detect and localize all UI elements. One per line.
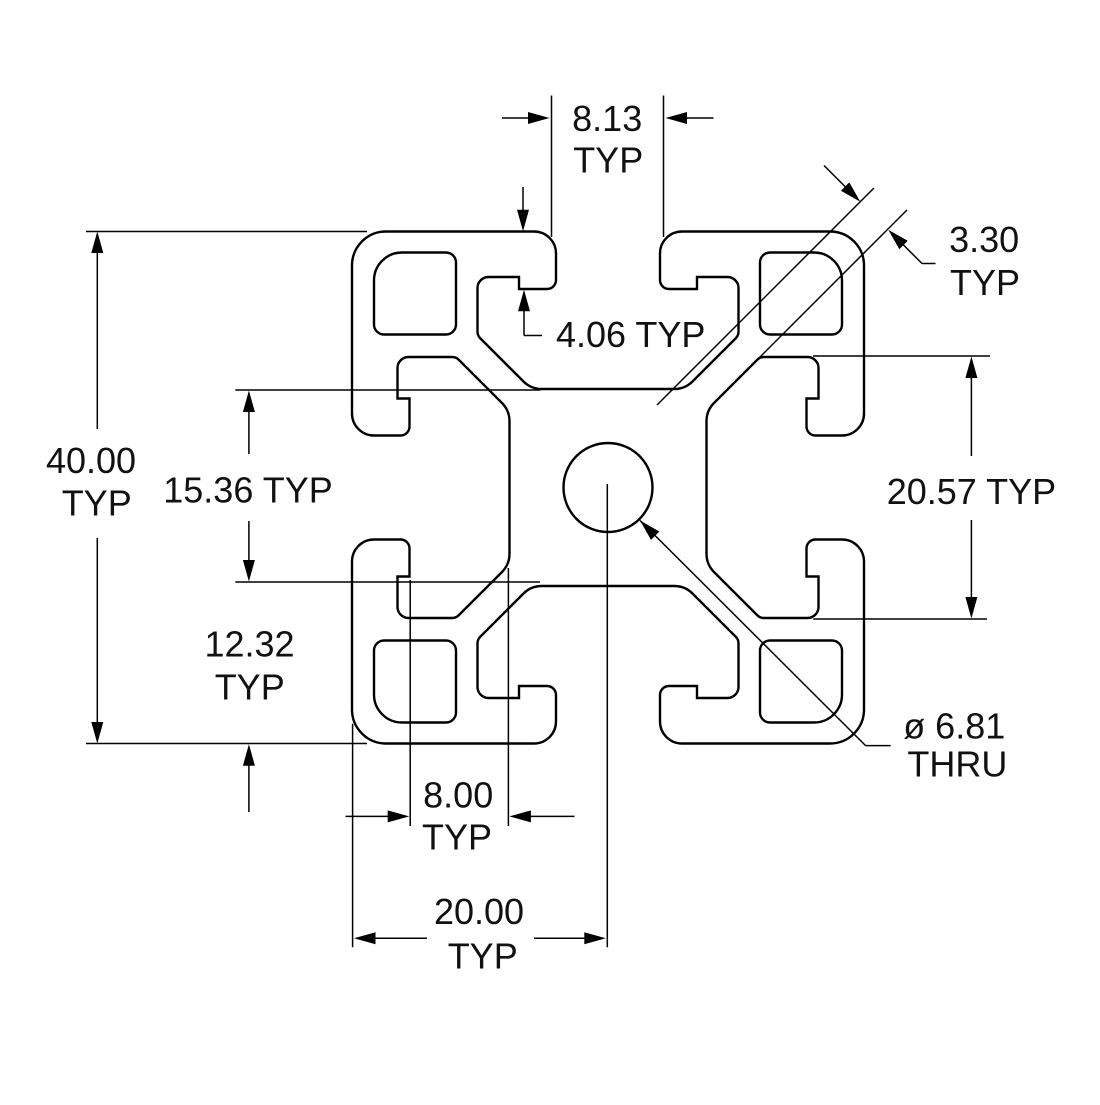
dim 20.00 TYP left arrow — [373, 937, 428, 939]
svg-text:12.32: 12.32 — [204, 624, 294, 665]
dim 20.57 TYP extension line bottom — [813, 618, 987, 620]
svg-text:TYP: TYP — [448, 936, 518, 977]
dim 3.30 TYP diagonal extension line upper — [657, 188, 874, 405]
dim 8.13 TYP left arrow — [502, 117, 531, 119]
svg-text:40.00: 40.00 — [46, 440, 136, 481]
dim 8.13 TYP extension line right — [663, 96, 665, 238]
dim 20.57 TYP lower arrow — [970, 520, 972, 600]
dim 4.06 TYP upper arrow pointing down at top face — [522, 187, 524, 213]
corner hollow bottom-right — [760, 641, 842, 723]
svg-text:4.06 TYP: 4.06 TYP — [556, 314, 705, 355]
svg-text:TYP: TYP — [573, 140, 643, 181]
svg-text:ø 6.81: ø 6.81 — [903, 706, 1005, 747]
svg-text:TYP: TYP — [62, 483, 132, 524]
svg-text:8.00: 8.00 — [423, 775, 493, 816]
dim 20.57 TYP upper arrow — [970, 375, 972, 456]
hole vertical centerline — [606, 484, 608, 947]
dim 40.00 TYP lower arrow — [96, 538, 98, 725]
dim 20.00 TYP extension line left — [352, 724, 354, 948]
center through hole — [564, 443, 653, 532]
dim 20.57 TYP extension line top — [813, 355, 990, 357]
svg-text:15.36 TYP: 15.36 TYP — [163, 470, 332, 511]
dim 12.32 TYP arrow below bottom face — [248, 762, 250, 812]
dim 8.13 TYP extension line left — [551, 96, 553, 238]
dim 40.00 TYP extension line bottom — [86, 743, 367, 745]
svg-text:3.30: 3.30 — [949, 219, 1019, 260]
hole callout leader with arrow — [640, 521, 866, 746]
svg-text:20.57 TYP: 20.57 TYP — [887, 471, 1056, 512]
profile outline of T-slot aluminum extrusion cross-section — [352, 232, 864, 744]
dim 8.00 TYP extension line right — [507, 568, 509, 826]
dim 15.36 TYP upper arrow — [248, 409, 250, 454]
dim 20.00 TYP right arrow — [534, 937, 587, 939]
dim 8.00 TYP extension line left — [409, 580, 411, 826]
dim 8.00 TYP right arrow — [528, 815, 575, 817]
dim 40.00 TYP extension line top — [86, 231, 367, 233]
dim 3.30 TYP arrow pointing down-right — [824, 166, 847, 189]
dim 4.06 TYP leader bar — [524, 335, 542, 337]
dim 3.30 TYP diagonal extension line lower — [711, 210, 907, 406]
svg-text:8.13: 8.13 — [572, 98, 642, 139]
svg-text:20.00: 20.00 — [434, 891, 524, 932]
dim 15.36 TYP lower arrow — [248, 521, 250, 563]
svg-text:TYP: TYP — [215, 667, 285, 708]
dim 4.06 TYP lower arrow pointing up at lip tab — [523, 308, 525, 336]
dim 15.36 TYP extension line bottom — [235, 581, 540, 583]
svg-text:TYP: TYP — [950, 262, 1020, 303]
corner hollow top-right — [760, 253, 842, 335]
dim 40.00 TYP upper arrow — [96, 250, 98, 429]
dim 8.13 TYP right arrow — [684, 117, 714, 119]
dim 15.36 TYP extension line top — [235, 389, 540, 391]
corner hollow top-left — [374, 253, 456, 335]
svg-text:THRU: THRU — [907, 743, 1007, 784]
corner hollow bottom-left — [374, 641, 456, 723]
dim 8.00 TYP left arrow — [346, 815, 392, 817]
svg-text:TYP: TYP — [422, 816, 492, 857]
dim 3.30 TYP arrow pointing up-left — [901, 243, 922, 264]
